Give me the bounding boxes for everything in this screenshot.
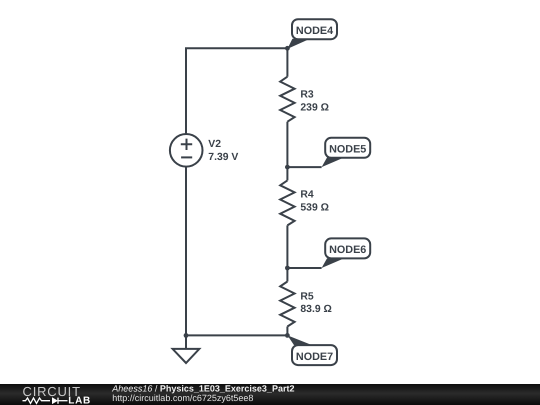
node flag NODE6: [322, 238, 371, 268]
V2 minus symbol: [181, 156, 192, 158]
svg-text:http://circuitlab.com/c6725zy6: http://circuitlab.com/c6725zy6t5ee8: [112, 393, 253, 403]
node flag NODE5: [322, 138, 371, 167]
svg-text:Aheess16 / Physics_1E03_Exerci: Aheess16 / Physics_1E03_Exercise3_Part2: [111, 383, 294, 393]
wire left rail lower: [185, 167, 187, 336]
voltage source V2 circle: [170, 134, 203, 167]
svg-text:R4: R4: [300, 190, 314, 201]
ground stub wire: [185, 335, 187, 349]
ground symbol triangle: [173, 349, 200, 363]
node flag NODE4: [287, 19, 337, 49]
junction node at NODE4: [285, 46, 290, 51]
wire bottom horizontal: [185, 334, 288, 336]
wire stub NODE6: [287, 267, 321, 269]
junction node at NODE5: [285, 165, 290, 170]
wire right rail R3 to NODE5: [286, 122, 288, 167]
svg-text:NODE6: NODE6: [329, 244, 366, 256]
svg-text:NODE7: NODE7: [296, 351, 333, 363]
svg-text:239 Ω: 239 Ω: [300, 102, 329, 113]
junction node at ground: [184, 333, 189, 338]
wire right rail above R3: [286, 48, 288, 76]
junction node at NODE6: [285, 266, 290, 271]
wire stub NODE5: [287, 166, 321, 168]
wire left rail upper: [185, 48, 187, 134]
wire right rail R5 to bottom: [286, 327, 288, 336]
wire right rail NODE6 to R5: [286, 268, 288, 282]
resistor R4 zigzag: [280, 180, 294, 225]
svg-text:NODE4: NODE4: [296, 25, 333, 37]
svg-text:V2: V2: [208, 139, 221, 150]
svg-text:R3: R3: [300, 90, 314, 101]
footer logo resistor-diode symbol: [23, 398, 68, 404]
wire right rail R4 to NODE6: [286, 225, 288, 268]
svg-text:R5: R5: [300, 291, 314, 302]
footer bar: [0, 384, 540, 405]
wire top horizontal: [185, 47, 287, 49]
node flag NODE7: [288, 335, 338, 365]
svg-text:539 Ω: 539 Ω: [300, 202, 329, 213]
svg-text:7.39 V: 7.39 V: [208, 152, 238, 163]
resistor R5 zigzag: [280, 282, 294, 327]
svg-text:LAB: LAB: [68, 396, 91, 405]
svg-text:83.9 Ω: 83.9 Ω: [300, 304, 331, 315]
resistor R3 zigzag: [280, 77, 294, 122]
V2 plus symbol: [181, 139, 192, 150]
wire right rail NODE5 to R4: [286, 167, 288, 180]
svg-text:NODE5: NODE5: [329, 144, 366, 156]
junction node at NODE7: [285, 333, 290, 338]
